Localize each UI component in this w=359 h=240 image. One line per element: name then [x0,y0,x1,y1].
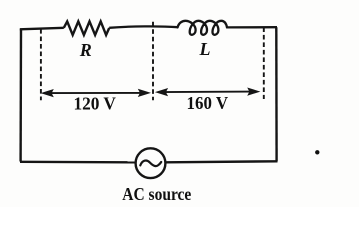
svg-text:160 V: 160 V [187,93,229,113]
dashed node line right [263,27,265,99]
dashed node line middle [152,22,154,101]
svg-text:R: R [79,40,92,60]
svg-text:AC source: AC source [122,184,191,204]
voltage arrow 120 V [41,89,151,97]
dashed node line left [40,29,42,100]
wire bottom left segment [20,161,135,164]
wire top right segment [227,26,277,28]
wire right side [275,27,278,161]
voltage arrow 160 V [155,88,261,97]
svg-text:L: L [199,39,211,59]
resistor R [64,21,109,35]
wire top left segment [20,28,64,30]
wire top middle segment [109,26,177,27]
svg-text:120 V: 120 V [73,94,116,114]
stray period dot [315,150,319,154]
AC source [136,148,166,178]
wire left side [19,29,22,162]
inductor L [178,21,227,35]
wire bottom right segment [166,161,277,162]
